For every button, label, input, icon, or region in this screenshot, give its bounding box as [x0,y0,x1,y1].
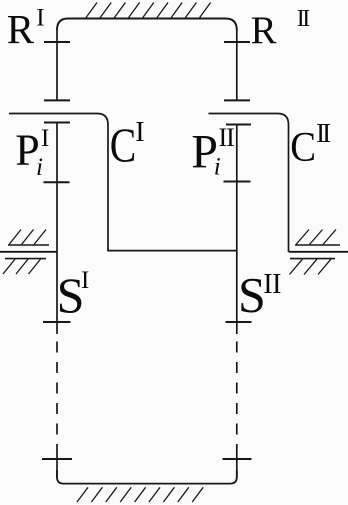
frame top bar (fixed support for ring gears) [57,19,237,31]
tick: planet P_i^I top mesh [44,122,70,124]
svg-text:I: I [41,125,49,152]
right ground upper hatch base [295,244,340,246]
svg-text:II: II [219,123,235,152]
left ground upper hatching [9,230,46,245]
carrier C^II arm (stub line, corner, down-link) [209,114,289,252]
svg-text:II: II [316,118,331,148]
tick: planet P_i^II top mesh [226,124,251,126]
right ground lower hatching [290,259,332,274]
tick: P_i^I / S^I mesh [44,181,70,183]
svg-text:R: R [7,6,35,52]
svg-text:i: i [36,154,43,181]
left ground lower hatching [3,259,41,274]
svg-text:II: II [263,269,281,300]
left ground upper hatch base [8,244,49,246]
ring gear R^II line [236,29,238,100]
svg-text:i: i [214,154,221,181]
tick: S^I lower gear mark [43,321,71,323]
left ground lower hatch base [5,258,46,260]
svg-text:C: C [290,123,316,170]
tick: R^II upper gear mark [224,41,250,43]
dashed shaft of S^I [56,342,58,453]
planet P_i^I / sun S^I shaft line [56,123,58,335]
left ground line (frame attachment of S^I shaft) [0,251,57,253]
tick: S^II shaft bottom cross [223,458,252,460]
frame bottom hatching [77,487,203,502]
svg-text:I: I [81,267,89,294]
tick: R^I mesh end [44,99,70,101]
tick: R^II mesh end [224,99,250,101]
S^I shaft lower solid stub [56,452,58,478]
planet P_i^II / sun S^II shaft line [236,125,238,335]
svg-text:C: C [110,118,136,173]
frame bottom bar (fixed support) [57,470,237,484]
S^II shaft lower solid stub [236,452,238,478]
svg-text:S: S [238,267,266,323]
svg-text:II: II [297,6,310,32]
right ground lower hatch base [290,258,335,260]
frame top hatching [86,3,211,18]
ring gear R^I line [56,29,58,100]
tick: S^II lower gear mark [226,321,252,323]
svg-text:R: R [251,9,277,52]
carrier C^I arm (input line, corner, down-link) [9,114,237,251]
tick: P_i^II / S^II mesh [224,181,251,183]
svg-text:I: I [135,117,144,148]
right ground upper hatching [296,230,336,245]
dashed shaft of S^II [236,342,238,453]
svg-text:I: I [36,4,44,31]
right ground line (frame attachment of carrier C^II) [289,251,348,253]
tick: S^I shaft bottom cross [42,458,72,460]
tick: R^I upper gear mark [44,41,70,43]
